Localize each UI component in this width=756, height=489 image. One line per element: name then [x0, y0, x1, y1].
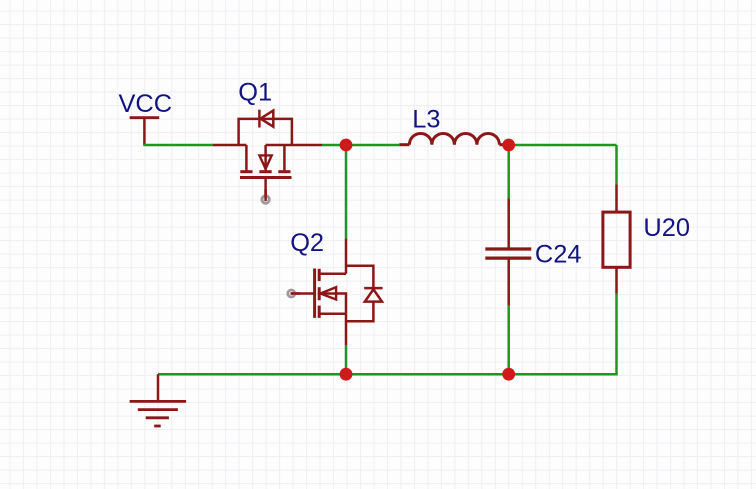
Q2 body diode anode lead — [346, 302, 373, 322]
svg-text:Q2: Q2 — [290, 229, 324, 257]
Q1 body stub with arrow — [264, 145, 267, 170]
C24 top plate — [485, 247, 531, 250]
svg-text:Q1: Q1 — [238, 78, 272, 106]
transistor Q1 — [213, 110, 322, 197]
Q2 body diode cathode bar — [364, 287, 382, 290]
Q2 drain stub — [319, 272, 346, 275]
L3 winding arcs — [409, 133, 499, 144]
Q2 gate bar — [313, 269, 316, 318]
Q1 gate lead — [264, 178, 267, 198]
svg-text:C24: C24 — [535, 241, 582, 269]
wire L3 out to node VOUT — [509, 144, 617, 147]
L3 right pin — [499, 143, 508, 146]
Q1 gate plate — [240, 176, 292, 179]
Q2 drain pin — [345, 238, 348, 273]
wire Q1 drain to node SW — [322, 144, 346, 147]
Q2 source stub — [319, 313, 346, 316]
Q1 source stub — [283, 145, 286, 170]
Q2 unconnected gate pin — [288, 290, 295, 297]
Q2 body stub — [319, 294, 346, 314]
wire node SW down to Q2 drain — [345, 145, 348, 238]
Q1 channel dashes — [240, 170, 290, 173]
Q1 right pin wire — [266, 144, 322, 147]
U20 bottom pin — [615, 267, 618, 293]
inductor L3 — [399, 133, 508, 144]
wire node VOUT down to C24 — [507, 145, 510, 198]
Q2 arrow — [320, 287, 336, 299]
wire Q2 source to ground rail — [345, 345, 348, 374]
junction ground-C24 — [502, 368, 515, 381]
wire node SW to L3 — [346, 144, 399, 147]
load U20 — [603, 184, 630, 293]
transistor Q2 — [291, 238, 383, 345]
power flag VCC — [130, 118, 160, 145]
wire C24 to ground rail — [507, 306, 510, 375]
Q1 arrow — [259, 155, 271, 169]
Q2 gate lead — [291, 292, 315, 295]
junction ground-Q2 — [340, 368, 353, 381]
Q1 unconnected gate pin — [262, 196, 269, 203]
C24 bottom pin — [507, 260, 510, 306]
wire VCC to Q1 source — [143, 144, 212, 147]
Q1 left pin wire — [213, 144, 247, 147]
U20 body box — [603, 212, 630, 267]
Q1 body diode cathode bar — [258, 110, 261, 128]
Q2 body diode triangle — [365, 289, 382, 301]
svg-text:U20: U20 — [643, 214, 690, 242]
Q2 body diode branch — [346, 266, 373, 288]
ground symbol — [130, 374, 187, 426]
svg-text:L3: L3 — [412, 106, 440, 134]
Q1 body diode triangle — [261, 111, 274, 127]
junction node VOUT — [502, 139, 515, 152]
C24 bottom plate — [485, 257, 531, 260]
Q2 source pin — [345, 314, 348, 345]
U20 top pin — [615, 184, 618, 212]
Q1 body diode loop left — [239, 119, 292, 145]
Q2 channel dashes — [318, 269, 321, 318]
capacitor C24 — [485, 198, 531, 305]
C24 top pin — [507, 198, 510, 248]
L3 left pin — [399, 143, 409, 146]
svg-text:VCC: VCC — [119, 90, 173, 118]
wire U20 down to ground rail — [615, 294, 618, 375]
junction node SW — [340, 139, 353, 152]
wire right rail down to U20 — [615, 145, 618, 184]
Q1 drain stub — [245, 145, 248, 170]
wire ground rail — [158, 373, 617, 374]
